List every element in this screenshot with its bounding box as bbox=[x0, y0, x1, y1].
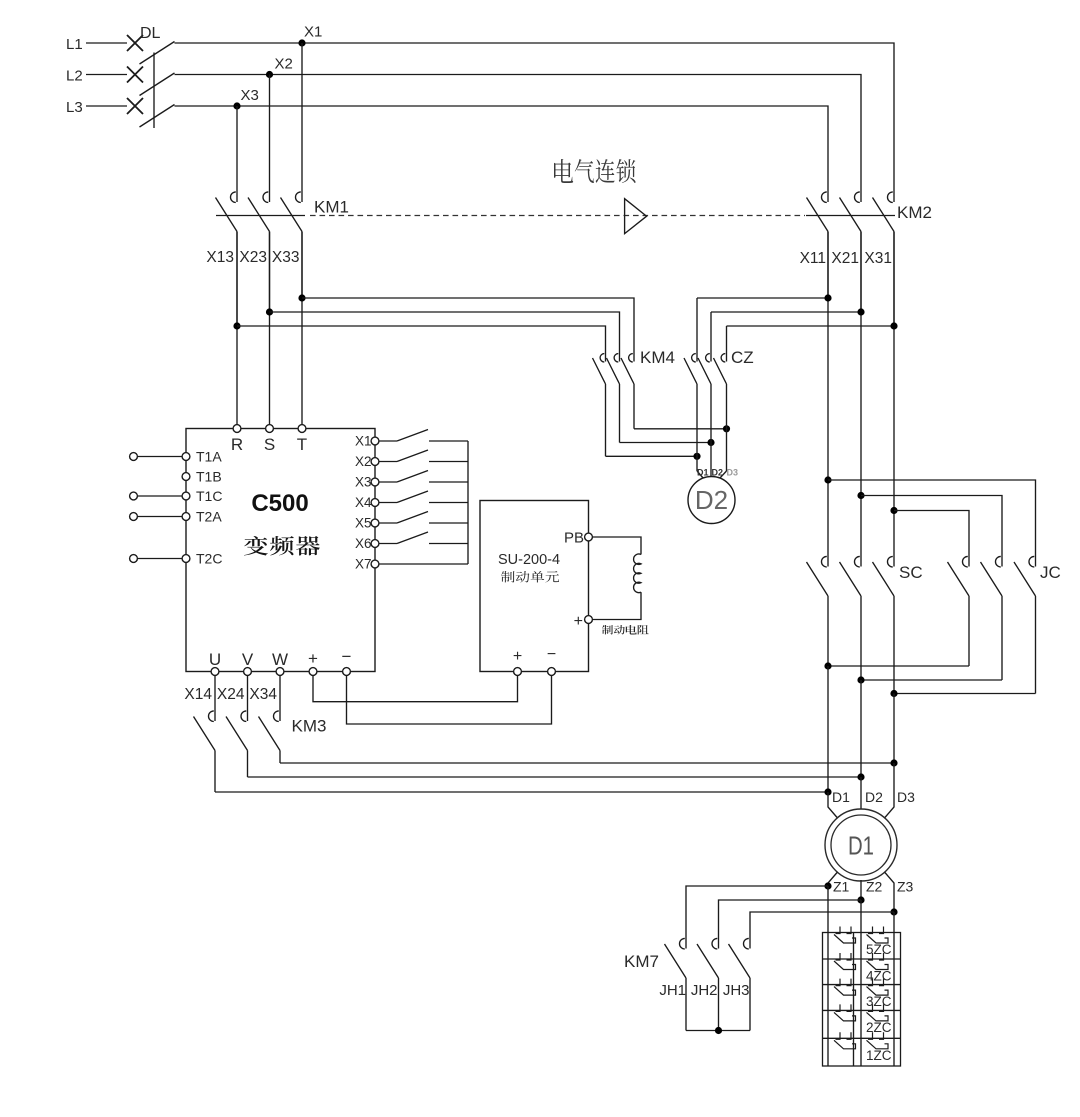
terminal circle T2A external bbox=[130, 513, 138, 521]
svg-text:T2A: T2A bbox=[196, 509, 222, 525]
wire - link bbox=[347, 676, 552, 724]
breaker DL pole L2 blade bbox=[140, 73, 175, 96]
node T tap bbox=[298, 294, 305, 301]
wire + link bbox=[313, 676, 518, 702]
node R tap bbox=[233, 322, 240, 329]
wire T2A external stub bbox=[138, 516, 182, 518]
node KM7 star bbox=[715, 1027, 722, 1034]
svg-text:−: − bbox=[342, 647, 352, 666]
contactor JC pole 1 bbox=[948, 554, 970, 666]
svg-text:L1: L1 bbox=[66, 36, 83, 53]
wire Z2 to KM7 pole2 bbox=[719, 900, 862, 936]
motor D2 circle bbox=[688, 477, 735, 524]
svg-text:X7: X7 bbox=[355, 557, 372, 572]
text bianpinqi 变频器 bbox=[244, 536, 320, 556]
contactor JC pole 3 bbox=[1014, 554, 1036, 694]
inverter terminal + bbox=[309, 668, 317, 676]
inverter terminal S bbox=[266, 425, 274, 433]
node column1-JC bbox=[824, 476, 831, 483]
node D1 feed 3 bbox=[890, 759, 897, 766]
node KM4-CZ pole3 bbox=[723, 425, 730, 432]
svg-text:X31: X31 bbox=[864, 250, 892, 267]
svg-text:2ZC: 2ZC bbox=[866, 1020, 892, 1035]
svg-text:X21: X21 bbox=[831, 250, 859, 267]
svg-text:4ZC: 4ZC bbox=[866, 969, 892, 984]
inverter C500 box bbox=[186, 429, 375, 672]
node X3 bbox=[233, 102, 240, 109]
contactor KM3 pole 1 bbox=[194, 709, 216, 793]
wire KM4 pole2 to node CZ2 bbox=[620, 442, 712, 444]
wire L3 feeder stub bbox=[86, 105, 127, 107]
wire into D2 terminal D3 bbox=[720, 471, 727, 479]
braking unit terminal +right bbox=[585, 616, 593, 624]
resistor bank box bbox=[823, 933, 901, 1067]
svg-text:KM2: KM2 bbox=[897, 203, 932, 222]
node column3-CZ bbox=[890, 322, 897, 329]
svg-text:L2: L2 bbox=[66, 68, 83, 85]
wire JC pole1 return bbox=[828, 665, 969, 667]
wire S riser bbox=[269, 232, 271, 425]
node Z3 bbox=[890, 908, 897, 915]
tap contact 4ZCL bbox=[834, 953, 856, 970]
terminal circle T2C external bbox=[130, 555, 138, 563]
svg-text:SU-200-4: SU-200-4 bbox=[498, 552, 560, 568]
wire Z1 to KM7 pole1 bbox=[686, 886, 828, 936]
wire column3 to JC pole1 bbox=[894, 511, 969, 555]
svg-text:3ZC: 3ZC bbox=[866, 994, 892, 1009]
inverter terminal R bbox=[233, 425, 241, 433]
svg-text:R: R bbox=[231, 435, 243, 454]
inverter terminal X6 bbox=[371, 540, 379, 548]
node column3-JC bbox=[890, 507, 897, 514]
svg-text:+: + bbox=[308, 649, 318, 668]
resistor bank row divider 1ZC bbox=[823, 1037, 901, 1039]
wire CZ pole2 top bbox=[710, 312, 712, 352]
node D1 feed 1 bbox=[824, 788, 831, 795]
breaker DL linkage bbox=[153, 53, 155, 129]
svg-text:CZ: CZ bbox=[731, 348, 754, 367]
KM2 linkage bar bbox=[806, 215, 895, 217]
resistor bank row divider 2ZC bbox=[823, 1009, 901, 1011]
svg-text:S: S bbox=[264, 435, 275, 454]
breaker DL pole L3 cross mark bbox=[127, 98, 143, 114]
electrical interlock dashed link bbox=[310, 215, 805, 217]
resistor bank internal divider bbox=[853, 933, 855, 1067]
svg-text:X33: X33 bbox=[272, 249, 300, 266]
wire X1 drop to KM1 bbox=[301, 43, 303, 190]
inverter terminal X2 bbox=[371, 458, 379, 466]
wire right column 1 bbox=[827, 232, 829, 555]
wire X24 drop bbox=[247, 676, 249, 709]
switch X2 bbox=[379, 450, 468, 462]
breaker DL pole L1 blade bbox=[140, 42, 175, 65]
svg-text:X1: X1 bbox=[355, 434, 372, 449]
node Z2 bbox=[857, 896, 864, 903]
svg-text:5ZC: 5ZC bbox=[866, 942, 892, 957]
wire T1C external stub bbox=[138, 495, 182, 497]
svg-text:D3: D3 bbox=[727, 468, 739, 478]
node column1-CZ bbox=[824, 294, 831, 301]
tap contact 3ZCR bbox=[867, 979, 889, 996]
switch common bus bbox=[467, 441, 469, 564]
svg-text:KM7: KM7 bbox=[624, 952, 659, 971]
node KM4-CZ pole1 bbox=[693, 453, 700, 460]
wire KM4 pole1 to node CZ1 bbox=[606, 455, 698, 457]
svg-text:X11: X11 bbox=[800, 250, 826, 267]
braking unit terminal PB bbox=[585, 533, 593, 541]
svg-text:+: + bbox=[574, 613, 583, 630]
wire S tap to KM4 pole2 bbox=[270, 312, 620, 352]
wire stub from D1 terminal Z3 bbox=[885, 872, 895, 912]
wire right column 3 bbox=[893, 232, 895, 555]
wire JC pole3 return bbox=[894, 693, 1036, 695]
contactor KM1 pole 1 bbox=[216, 190, 238, 327]
wire X3 drop to KM1 bbox=[236, 106, 238, 190]
contactor KM7 pole 3 bbox=[729, 936, 751, 1031]
svg-text:X14: X14 bbox=[184, 686, 212, 703]
text zhidongdianzu 制动电阻 bbox=[602, 625, 649, 635]
wire V run to D1 bbox=[248, 776, 862, 778]
contactor CZ pole 2 bbox=[698, 352, 711, 477]
node JC3 return bbox=[890, 690, 897, 697]
contactor SC pole 3 bbox=[873, 554, 895, 694]
node JC2 return bbox=[857, 676, 864, 683]
svg-text:JH2: JH2 bbox=[691, 982, 718, 999]
node D1 feed 2 bbox=[857, 773, 864, 780]
svg-text:−: − bbox=[547, 646, 556, 663]
contactor SC pole 2 bbox=[840, 554, 862, 680]
contactor CZ pole 1 bbox=[684, 352, 697, 471]
inverter terminal X7 bbox=[371, 560, 379, 568]
contactor KM2 pole 2 bbox=[840, 190, 862, 313]
text dianqiliansuo 电气连锁 bbox=[554, 159, 636, 183]
switch X5 bbox=[379, 512, 468, 524]
contactor KM3 pole 3 bbox=[259, 709, 281, 764]
wire L2 run to right column bbox=[175, 75, 862, 190]
wire CZ pole3 top bbox=[726, 326, 728, 352]
motor D1 outer circle bbox=[825, 809, 897, 881]
svg-text:X24: X24 bbox=[217, 686, 245, 703]
switch X1 bbox=[379, 430, 468, 442]
wire JC pole2 return bbox=[861, 679, 1002, 681]
contactor KM4 pole 1 bbox=[593, 352, 606, 456]
wire X2 drop to KM1 bbox=[269, 75, 271, 190]
wire stub into D1 terminal D1 bbox=[828, 792, 838, 818]
wire KM7 star bar bbox=[686, 1030, 750, 1032]
svg-text:JH3: JH3 bbox=[723, 982, 750, 999]
wire right column 2 bbox=[860, 232, 862, 555]
node KM4-CZ pole2 bbox=[707, 439, 714, 446]
wire stub into D1 terminal D3 bbox=[885, 763, 895, 818]
braking resistor coil wiring bbox=[593, 537, 641, 555]
text zhidongdanyuan 制动单元 bbox=[501, 571, 559, 583]
wire into D2 terminal D1 bbox=[697, 471, 704, 479]
svg-text:Z3: Z3 bbox=[897, 879, 914, 895]
inverter terminal T1C bbox=[182, 492, 190, 500]
wire R tap to KM4 pole1 bbox=[237, 326, 606, 352]
contactor KM4 pole 3 bbox=[621, 352, 634, 429]
wire U run to D1 bbox=[215, 791, 828, 793]
node S tap bbox=[266, 308, 273, 315]
switch X4 bbox=[379, 491, 468, 503]
svg-text:+: + bbox=[513, 648, 522, 665]
tap contact 3ZCL bbox=[834, 979, 856, 996]
contactor KM3 pole 2 bbox=[226, 709, 248, 778]
resistor bank row divider 4ZC bbox=[823, 958, 901, 960]
node column2-CZ bbox=[857, 308, 864, 315]
svg-text:T1A: T1A bbox=[196, 449, 222, 465]
svg-text:C500: C500 bbox=[251, 490, 308, 517]
svg-text:T2C: T2C bbox=[196, 551, 222, 567]
tap contact 4ZCR bbox=[867, 953, 889, 970]
svg-text:X23: X23 bbox=[239, 249, 267, 266]
KM1 linkage bar bbox=[216, 215, 305, 217]
node JC1 return bbox=[824, 662, 831, 669]
contactor SC pole 1 bbox=[807, 554, 829, 666]
inverter terminal T2A bbox=[182, 513, 190, 521]
wire CZ pole2 feed from right column bbox=[711, 311, 861, 313]
wire Z2 through bank bbox=[860, 900, 862, 1066]
resistor bank row divider 3ZC bbox=[823, 984, 901, 986]
terminal circle T1A external bbox=[130, 453, 138, 461]
wire Z3 through bank bbox=[893, 912, 895, 1066]
svg-text:KM3: KM3 bbox=[292, 717, 327, 736]
svg-text:X13: X13 bbox=[206, 249, 234, 266]
wire column3 down to D1 bbox=[893, 694, 895, 764]
wire X34 drop bbox=[279, 676, 281, 709]
inverter terminal T bbox=[298, 425, 306, 433]
svg-text:DL: DL bbox=[140, 25, 161, 42]
svg-text:D3: D3 bbox=[897, 789, 915, 805]
breaker DL pole L1 cross mark bbox=[127, 35, 143, 51]
svg-text:T1B: T1B bbox=[196, 469, 222, 485]
svg-text:X34: X34 bbox=[249, 686, 277, 703]
wire L1 feeder stub bbox=[86, 42, 127, 44]
wire L3 run to right column bbox=[175, 106, 829, 190]
svg-text:W: W bbox=[272, 650, 288, 669]
svg-text:X6: X6 bbox=[355, 536, 372, 551]
wire L2 feeder stub bbox=[86, 74, 127, 76]
tap contact 1ZCL bbox=[834, 1032, 856, 1049]
svg-text:KM1: KM1 bbox=[314, 198, 349, 217]
wire stub from D1 terminal Z1 bbox=[828, 872, 838, 886]
wire CZ pole1 feed from right column bbox=[697, 297, 828, 299]
contactor KM2 pole 3 bbox=[873, 190, 895, 327]
svg-text:1ZC: 1ZC bbox=[866, 1048, 892, 1063]
wire L1 run to right column bbox=[175, 43, 895, 190]
breaker DL pole L3 blade bbox=[140, 105, 175, 128]
wire stub from D1 terminal Z2 bbox=[860, 880, 862, 900]
svg-text:V: V bbox=[242, 650, 254, 669]
svg-text:JC: JC bbox=[1040, 563, 1061, 582]
inverter terminal T1B bbox=[182, 473, 190, 481]
wire T1A external stub bbox=[138, 456, 182, 458]
inverter terminal - bbox=[343, 668, 351, 676]
terminal circle T1C external bbox=[130, 492, 138, 500]
svg-text:PB: PB bbox=[564, 530, 584, 547]
contactor KM7 pole 1 bbox=[665, 936, 687, 1031]
svg-text:JH1: JH1 bbox=[659, 982, 686, 999]
contactor JC pole 2 bbox=[981, 554, 1003, 680]
contactor KM4 pole 2 bbox=[607, 352, 620, 443]
contactor KM7 pole 2 bbox=[697, 936, 719, 1031]
wire T2C external stub bbox=[138, 558, 182, 560]
inverter terminal X5 bbox=[371, 519, 379, 527]
braking unit SU-200-4 box bbox=[480, 501, 589, 672]
inverter terminal T1A bbox=[182, 453, 190, 461]
svg-text:U: U bbox=[209, 650, 221, 669]
svg-text:X2: X2 bbox=[355, 454, 372, 469]
tap contact 2ZCR bbox=[867, 1004, 889, 1021]
wire column2 to JC pole2 bbox=[861, 496, 1002, 555]
braking unit terminal -bottom bbox=[548, 668, 556, 676]
wire X14 drop bbox=[214, 676, 216, 709]
node column2-JC bbox=[857, 492, 864, 499]
svg-text:X3: X3 bbox=[355, 475, 372, 490]
wire CZ pole1 top bbox=[696, 298, 698, 352]
svg-text:X1: X1 bbox=[304, 24, 322, 41]
switch X6 bbox=[379, 532, 468, 544]
braking resistor coil bbox=[634, 554, 641, 593]
inverter terminal V bbox=[244, 668, 252, 676]
svg-text:D1: D1 bbox=[832, 789, 850, 805]
wire R riser bbox=[236, 232, 238, 425]
contactor KM1 pole 3 bbox=[281, 190, 303, 299]
svg-text:KM4: KM4 bbox=[640, 348, 675, 367]
tap contact 5ZCL bbox=[834, 927, 856, 944]
svg-text:T: T bbox=[297, 435, 307, 454]
wire T riser bbox=[301, 232, 303, 425]
svg-text:D2: D2 bbox=[865, 789, 883, 805]
wire KM4 pole3 to node CZ3 bbox=[634, 428, 727, 430]
svg-text:D1: D1 bbox=[848, 831, 874, 861]
wire stub into D1 terminal D2 bbox=[860, 777, 862, 810]
interlock arrow triangle bbox=[625, 199, 647, 234]
braking resistor coil wiring bottom bbox=[593, 592, 641, 619]
svg-text:X5: X5 bbox=[355, 516, 372, 531]
contactor KM2 pole 1 bbox=[807, 190, 829, 299]
node Z1 bbox=[824, 882, 831, 889]
wire X7 common bbox=[379, 563, 468, 565]
svg-text:X2: X2 bbox=[275, 56, 293, 73]
braking unit terminal +bottom bbox=[514, 668, 522, 676]
svg-text:D2: D2 bbox=[695, 485, 728, 515]
svg-text:X4: X4 bbox=[355, 495, 372, 510]
svg-text:T1C: T1C bbox=[196, 488, 222, 504]
tap contact 1ZCR bbox=[867, 1032, 889, 1049]
wire T tap to KM4 pole3 bbox=[302, 298, 634, 352]
svg-text:D1: D1 bbox=[697, 468, 709, 478]
svg-text:L3: L3 bbox=[66, 99, 83, 116]
wire Z1 through bank bbox=[827, 886, 829, 1066]
node X2 bbox=[266, 71, 273, 78]
switch X3 bbox=[379, 471, 468, 483]
inverter terminal T2C bbox=[182, 555, 190, 563]
wire Z3 to KM7 pole3 bbox=[750, 912, 894, 936]
inverter terminal X1 bbox=[371, 437, 379, 445]
contactor CZ pole 3 bbox=[714, 352, 727, 471]
wire column2 down to D1 bbox=[860, 680, 862, 777]
inverter terminal X4 bbox=[371, 499, 379, 507]
wire column1 down to D1 bbox=[827, 666, 829, 792]
wire CZ pole3 feed from right column bbox=[727, 325, 895, 327]
svg-text:Z1: Z1 bbox=[833, 879, 850, 895]
tap contact 5ZCR bbox=[867, 927, 889, 944]
node X1 bbox=[298, 39, 305, 46]
inverter terminal W bbox=[276, 668, 284, 676]
svg-text:X3: X3 bbox=[241, 87, 259, 104]
breaker DL pole L2 cross mark bbox=[127, 67, 143, 83]
tap contact 2ZCL bbox=[834, 1004, 856, 1021]
contactor KM1 pole 2 bbox=[248, 190, 270, 313]
svg-text:Z2: Z2 bbox=[866, 879, 883, 895]
wire column1 to JC pole3 bbox=[828, 480, 1036, 554]
wire W run to D1 bbox=[280, 762, 894, 764]
motor D1 inner circle bbox=[831, 815, 891, 875]
svg-text:SC: SC bbox=[899, 563, 923, 582]
inverter terminal U bbox=[211, 668, 219, 676]
inverter terminal X3 bbox=[371, 478, 379, 486]
